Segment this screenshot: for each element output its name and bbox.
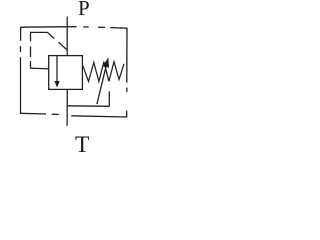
valve body square — [49, 56, 83, 90]
wire T outlet vertical line — [66, 89, 68, 125]
wire envelope left side dashed vertical — [20, 27, 22, 41]
wire envelope top-left solid segment — [21, 26, 77, 29]
flow path arrow inside valve — [56, 56, 58, 82]
wire P inlet vertical line — [66, 17, 68, 56]
wire envelope top-right dashed segment — [83, 26, 88, 28]
adjustment arrow shaft across spring — [97, 67, 106, 104]
pilot line left dashed vertical — [30, 32, 32, 41]
pilot line bottom horizontal into valve — [30, 67, 49, 70]
port label P — [78, 0, 90, 21]
wire envelope right side vertical — [126, 28, 128, 83]
spring zigzag — [83, 62, 124, 82]
pilot line diagonal dashes from P line — [59, 42, 67, 50]
port label T — [75, 132, 89, 159]
pilot line top horizontal — [30, 31, 47, 33]
drain line vertical dash — [108, 91, 110, 106]
adjustment arrow head — [103, 57, 109, 67]
drain line horizontal — [67, 105, 109, 108]
wire envelope bottom dashed segment — [20, 112, 46, 115]
